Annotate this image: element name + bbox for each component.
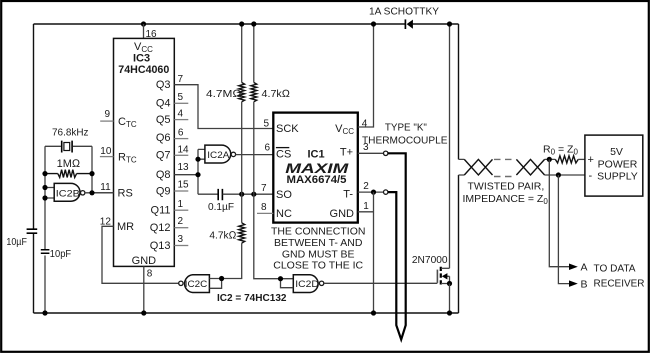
svg-text:RS: RS bbox=[118, 187, 133, 199]
resistor 1M bbox=[45, 158, 92, 177]
svg-text:1MΩ: 1MΩ bbox=[57, 158, 81, 170]
node R0 left bbox=[547, 157, 552, 162]
node T- GND junction bbox=[371, 190, 376, 195]
svg-text:IC2B: IC2B bbox=[56, 188, 80, 199]
svg-text:Q13: Q13 bbox=[150, 240, 171, 252]
svg-text:IMPEDANCE = Z0: IMPEDANCE = Z0 bbox=[463, 193, 549, 206]
pin 11 RS bbox=[92, 182, 133, 199]
pin 8 NC stub bbox=[257, 202, 273, 213]
svg-text:10µF: 10µF bbox=[6, 236, 27, 248]
pin 4 Q5 bbox=[156, 109, 188, 126]
wire top rail bbox=[34, 23, 459, 25]
svg-text:5V: 5V bbox=[610, 146, 623, 158]
node IC2B input top bbox=[42, 185, 47, 190]
pin 1 Q11 bbox=[151, 199, 189, 217]
svg-text:GND: GND bbox=[132, 255, 157, 267]
svg-text:15: 15 bbox=[178, 180, 190, 191]
5V power supply box bbox=[585, 135, 643, 196]
pin 3 T+ wire bbox=[358, 142, 384, 153]
svg-text:SCK: SCK bbox=[276, 123, 299, 135]
op-amp IC1 box MAX6674/5 bbox=[273, 113, 358, 223]
svg-text:IC2C: IC2C bbox=[185, 279, 208, 290]
svg-text:IC1: IC1 bbox=[308, 149, 325, 161]
svg-text:TWISTED PAIR,: TWISTED PAIR, bbox=[468, 181, 545, 193]
diode 1A SCHOTTKY bbox=[369, 5, 439, 29]
capacitor 10uF bbox=[6, 229, 37, 248]
svg-text:74HC4060: 74HC4060 bbox=[118, 64, 169, 76]
pin 13 Q8 wire bbox=[156, 162, 198, 181]
nand IC2B bbox=[45, 183, 114, 201]
node 1M right bbox=[89, 171, 94, 176]
svg-text:2: 2 bbox=[363, 181, 369, 192]
svg-text:T-: T- bbox=[343, 188, 353, 200]
pin 6 Q6 bbox=[156, 128, 188, 145]
svg-text:4: 4 bbox=[178, 109, 184, 120]
svg-text:IC2A: IC2A bbox=[207, 150, 230, 161]
pin 15 Q9 bbox=[156, 180, 189, 198]
wire A drop bbox=[549, 159, 569, 266]
wire IC3 VCC riser bbox=[143, 24, 145, 38]
IC3 internal labels bbox=[118, 41, 169, 267]
node bottom rail GND bbox=[371, 310, 376, 315]
nand IC2C mirrored bbox=[179, 275, 222, 293]
svg-text:TYPE "K": TYPE "K" bbox=[385, 122, 427, 134]
resistor 4.7M bbox=[206, 24, 245, 194]
transistor 2N7000 bbox=[412, 254, 450, 284]
svg-text:MAX6674/5: MAX6674/5 bbox=[287, 174, 347, 186]
op-amp IC3 box 74HC4060 bbox=[114, 38, 175, 266]
crystal 76.8kHz bbox=[45, 127, 92, 153]
resistor 4.7k upper bbox=[251, 24, 290, 194]
svg-text:4.7kΩ: 4.7kΩ bbox=[262, 88, 291, 100]
pin 14 Q7 bbox=[156, 145, 189, 162]
node IC2D input bbox=[278, 276, 283, 281]
svg-text:9: 9 bbox=[105, 109, 111, 120]
svg-text:TO DATA: TO DATA bbox=[594, 263, 636, 275]
svg-text:Q6: Q6 bbox=[156, 132, 171, 144]
svg-text:7: 7 bbox=[178, 74, 184, 85]
svg-text:2N7000: 2N7000 bbox=[412, 254, 448, 266]
wire MOSFET drain riser bbox=[449, 24, 451, 268]
node IC2A input bbox=[195, 157, 200, 162]
svg-text:VCC: VCC bbox=[335, 123, 354, 136]
svg-text:THERMOCOUPLE: THERMOCOUPLE bbox=[362, 135, 448, 147]
node bottom rail junction 10pF bbox=[42, 310, 47, 315]
node top rail junction IC3 VCC bbox=[141, 21, 146, 26]
arrow A bbox=[569, 264, 578, 271]
wire right loop lower bbox=[458, 175, 460, 313]
svg-text:7: 7 bbox=[261, 183, 267, 194]
thermocouple probe bbox=[388, 153, 406, 339]
svg-text:10pF: 10pF bbox=[50, 248, 71, 260]
svg-text:B: B bbox=[581, 278, 588, 290]
node bottom rail source bbox=[447, 310, 452, 315]
pin 4 VCC wire bbox=[358, 24, 374, 129]
pin 8 GND wire bbox=[144, 266, 153, 313]
node top rail VCC1 bbox=[371, 21, 376, 26]
wire B drop bbox=[558, 175, 569, 284]
node Q8 junction bbox=[195, 172, 200, 177]
svg-text:CTC: CTC bbox=[118, 116, 137, 129]
svg-text:3: 3 bbox=[178, 234, 184, 245]
svg-text:14: 14 bbox=[178, 145, 190, 156]
pin 12 MR wire to IC2C bbox=[100, 217, 179, 284]
svg-text:RTC: RTC bbox=[118, 151, 137, 164]
svg-text:+: + bbox=[588, 154, 594, 166]
wire right loop upper bbox=[458, 24, 460, 159]
pin 1 GND wire bbox=[358, 192, 374, 313]
wire left rail bbox=[33, 24, 35, 313]
svg-text:THE CONNECTION: THE CONNECTION bbox=[271, 226, 366, 238]
node bottom rail junction pin8 bbox=[141, 310, 146, 315]
svg-text:-: - bbox=[589, 170, 593, 182]
svg-text:IC2 = 74HC132: IC2 = 74HC132 bbox=[217, 292, 287, 304]
node MOSFET source bbox=[447, 281, 452, 286]
node IC2B output bbox=[89, 190, 94, 195]
svg-text:76.8kHz: 76.8kHz bbox=[52, 127, 89, 139]
svg-text:11: 11 bbox=[100, 182, 111, 193]
resistor 4.7k lower bbox=[209, 194, 244, 278]
node 1M left bbox=[42, 171, 47, 176]
svg-text:GND: GND bbox=[330, 208, 355, 220]
pin 5 Q4 bbox=[156, 92, 188, 110]
svg-text:SUPPLY: SUPPLY bbox=[597, 170, 638, 182]
node minus wire bbox=[556, 172, 561, 177]
svg-text:SO: SO bbox=[276, 189, 292, 201]
svg-text:R0 = Z0: R0 = Z0 bbox=[543, 144, 578, 157]
nand IC2A bbox=[198, 145, 273, 194]
capacitor 10pF bbox=[41, 248, 71, 260]
svg-text:Q3: Q3 bbox=[156, 79, 171, 91]
note text bbox=[271, 226, 366, 272]
svg-text:10: 10 bbox=[100, 146, 112, 157]
svg-text:1: 1 bbox=[363, 201, 369, 212]
svg-text:1: 1 bbox=[178, 199, 184, 210]
svg-text:T+: T+ bbox=[340, 147, 353, 159]
svg-text:MR: MR bbox=[117, 221, 134, 233]
svg-text:RECEIVER: RECEIVER bbox=[594, 277, 645, 289]
svg-text:Q5: Q5 bbox=[156, 114, 171, 126]
pin 10 RTC bbox=[100, 146, 137, 164]
svg-text:2: 2 bbox=[178, 216, 184, 227]
svg-text:Q8: Q8 bbox=[156, 169, 171, 181]
svg-text:12: 12 bbox=[100, 217, 112, 228]
node SO line 4.7k bbox=[251, 192, 256, 197]
wire MOSFET source to rail bbox=[449, 284, 451, 314]
wire crystal right leg bbox=[91, 146, 93, 193]
svg-text:1A SCHOTTKY: 1A SCHOTTKY bbox=[369, 5, 439, 17]
node SO line 4.7M bbox=[239, 192, 244, 197]
svg-text:13: 13 bbox=[178, 162, 190, 173]
nand IC2D bbox=[281, 275, 438, 293]
svg-text:4.7MΩ: 4.7MΩ bbox=[206, 88, 242, 100]
pin 3 Q13 bbox=[150, 234, 189, 252]
node IC2C input bbox=[219, 276, 224, 281]
wire crystal left leg bbox=[44, 146, 46, 313]
pin 2 T- wire bbox=[358, 181, 384, 192]
svg-text:5: 5 bbox=[178, 92, 184, 103]
wire 4.7k to IC2D bbox=[254, 194, 293, 279]
svg-text:BETWEEN T- AND: BETWEEN T- AND bbox=[274, 237, 363, 249]
node top rail drain bbox=[447, 21, 452, 26]
capacitor 0.1uF bbox=[198, 189, 273, 213]
svg-text:Q4: Q4 bbox=[156, 98, 171, 110]
svg-text:POWER: POWER bbox=[598, 158, 638, 170]
node top rail 4.7k bbox=[251, 21, 256, 26]
svg-text:5: 5 bbox=[264, 118, 270, 129]
resistor R0 bbox=[543, 144, 585, 163]
svg-text:Q9: Q9 bbox=[156, 185, 171, 197]
svg-text:8: 8 bbox=[147, 269, 153, 280]
svg-text:6: 6 bbox=[178, 128, 184, 139]
pin 7 Q3 wire to SCK bbox=[156, 74, 273, 128]
wire bottom rail bbox=[34, 312, 459, 314]
svg-text:4: 4 bbox=[362, 118, 368, 129]
node IC2B input bottom bbox=[42, 195, 47, 200]
svg-text:A: A bbox=[581, 262, 588, 274]
svg-text:0.1µF: 0.1µF bbox=[208, 201, 234, 213]
svg-text:NC: NC bbox=[276, 208, 292, 220]
svg-text:8: 8 bbox=[261, 202, 267, 213]
svg-text:IC3: IC3 bbox=[133, 53, 150, 65]
svg-text:4.7kΩ: 4.7kΩ bbox=[209, 230, 236, 242]
svg-text:CS: CS bbox=[276, 149, 291, 161]
svg-text:Q11: Q11 bbox=[151, 205, 171, 217]
node top rail 4.7M bbox=[239, 21, 244, 26]
svg-text:Q12: Q12 bbox=[150, 222, 171, 234]
terminal T- bbox=[384, 190, 388, 194]
svg-text:6: 6 bbox=[265, 143, 271, 154]
pin 9 CTC bbox=[100, 109, 137, 129]
twisted pair bbox=[459, 159, 585, 206]
arrow B bbox=[569, 280, 578, 287]
svg-text:IC2D: IC2D bbox=[295, 279, 319, 290]
svg-text:Q7: Q7 bbox=[156, 150, 171, 162]
svg-text:CLOSE TO THE IC: CLOSE TO THE IC bbox=[273, 259, 363, 271]
terminal T+ bbox=[384, 151, 388, 155]
pin 2 Q12 bbox=[150, 216, 189, 234]
